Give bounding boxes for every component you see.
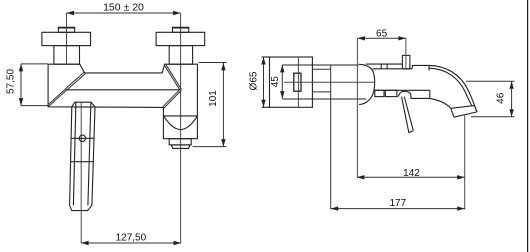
svg-text:65: 65 [376,29,388,40]
svg-text:57,50: 57,50 [6,69,17,94]
svg-text:Ø65: Ø65 [248,71,259,90]
svg-text:45: 45 [270,76,281,88]
svg-text:127,50: 127,50 [116,233,147,244]
svg-text:46: 46 [496,92,507,104]
svg-text:142: 142 [403,168,420,179]
svg-text:177: 177 [389,198,406,209]
svg-text:101: 101 [208,90,219,107]
svg-text:150 ± 20: 150 ± 20 [103,2,144,14]
